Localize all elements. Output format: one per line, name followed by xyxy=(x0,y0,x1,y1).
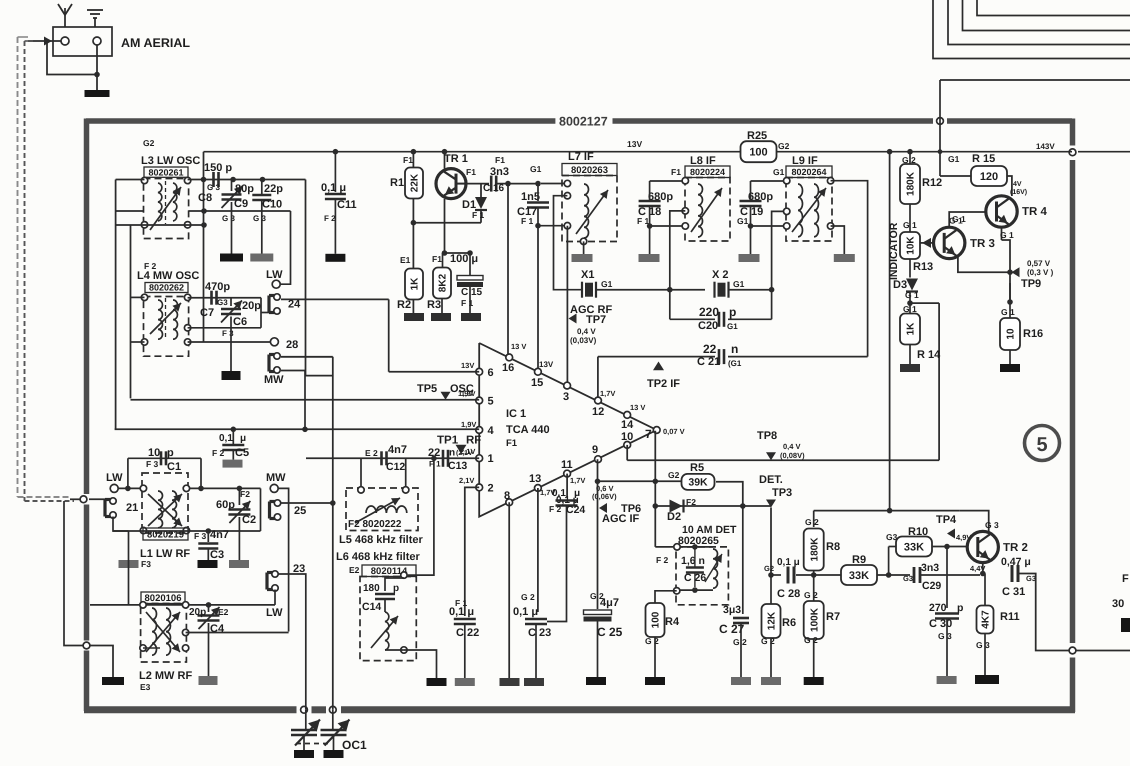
svg-text:1,7V: 1,7V xyxy=(600,389,615,398)
svg-text:8020264: 8020264 xyxy=(791,167,826,177)
svg-text:C 28: C 28 xyxy=(777,588,800,600)
svg-text:0,57 V: 0,57 V xyxy=(1027,259,1051,268)
svg-text:n: n xyxy=(731,342,738,356)
svg-text:TR 3: TR 3 xyxy=(970,238,995,250)
svg-text:R 15: R 15 xyxy=(972,153,995,165)
svg-text:C9: C9 xyxy=(234,198,248,210)
svg-text:5: 5 xyxy=(1036,434,1047,456)
svg-text:E3: E3 xyxy=(140,682,151,692)
svg-text:F1: F1 xyxy=(466,167,476,177)
svg-text:1,7V: 1,7V xyxy=(570,476,585,485)
svg-text:0,47 μ: 0,47 μ xyxy=(1001,556,1031,568)
svg-text:1: 1 xyxy=(488,453,494,465)
svg-text:2,1V: 2,1V xyxy=(459,476,474,485)
svg-text:5: 5 xyxy=(488,396,494,408)
svg-text:C 23: C 23 xyxy=(528,627,551,639)
svg-text:C10: C10 xyxy=(262,199,282,211)
svg-text:1,6 n: 1,6 n xyxy=(681,555,705,567)
svg-text:G3: G3 xyxy=(1026,574,1036,583)
svg-text:4n7: 4n7 xyxy=(388,444,407,456)
svg-text:C5: C5 xyxy=(235,447,249,459)
svg-text:G3: G3 xyxy=(217,298,228,307)
svg-text:3: 3 xyxy=(563,391,569,403)
svg-text:F 2: F 2 xyxy=(212,448,225,458)
svg-text:22p: 22p xyxy=(264,183,283,195)
svg-text:MW: MW xyxy=(264,374,284,386)
svg-text:X1: X1 xyxy=(581,269,594,281)
svg-text:L8 IF: L8 IF xyxy=(690,155,716,167)
svg-text:F2 8020222: F2 8020222 xyxy=(348,519,402,530)
svg-text:C2: C2 xyxy=(242,514,256,526)
svg-text:G 2: G 2 xyxy=(804,635,818,645)
svg-text:G 2: G 2 xyxy=(521,592,535,602)
svg-text:(0,06V): (0,06V) xyxy=(592,492,617,501)
svg-text:F: F xyxy=(1122,573,1129,585)
svg-text:G1: G1 xyxy=(773,167,785,177)
svg-text:G1: G1 xyxy=(948,154,960,164)
svg-text:C29: C29 xyxy=(922,580,941,592)
svg-text:13: 13 xyxy=(529,473,541,485)
svg-text:RF: RF xyxy=(466,435,481,447)
svg-text:G 1: G 1 xyxy=(905,290,919,300)
svg-text:R7: R7 xyxy=(826,611,840,623)
svg-text:F2: F2 xyxy=(686,497,696,507)
svg-text:F 1: F 1 xyxy=(521,216,534,226)
svg-text:E 2: E 2 xyxy=(365,448,378,458)
svg-text:F1: F1 xyxy=(506,438,518,449)
svg-text:60p: 60p xyxy=(216,499,235,511)
svg-text:100K: 100K xyxy=(809,607,820,632)
svg-text:p: p xyxy=(393,583,399,594)
svg-text:10: 10 xyxy=(621,431,633,443)
svg-text:10: 10 xyxy=(148,447,160,459)
svg-text:R 14: R 14 xyxy=(917,349,941,361)
svg-text:20p: 20p xyxy=(242,300,261,312)
svg-text:C24: C24 xyxy=(566,504,585,516)
svg-text:0,1 μ: 0,1 μ xyxy=(321,182,346,194)
svg-text:G 3: G 3 xyxy=(976,640,990,650)
svg-text:7: 7 xyxy=(645,427,652,441)
svg-text:(0,03V): (0,03V) xyxy=(570,336,597,345)
svg-text:0,1 μ: 0,1 μ xyxy=(777,557,800,568)
svg-text:4n7: 4n7 xyxy=(210,529,229,541)
svg-text:0,07 V: 0,07 V xyxy=(663,427,685,436)
svg-text:180K: 180K xyxy=(906,171,917,196)
svg-text:F1: F1 xyxy=(432,254,442,264)
svg-text:20p: 20p xyxy=(189,607,206,618)
svg-text:24: 24 xyxy=(288,299,301,311)
svg-text:4V: 4V xyxy=(1013,181,1022,188)
svg-text:220: 220 xyxy=(699,305,719,319)
svg-text:C 22: C 22 xyxy=(456,627,479,639)
svg-text:TP3: TP3 xyxy=(772,487,792,499)
svg-text:IC 1: IC 1 xyxy=(506,408,526,420)
svg-text:11: 11 xyxy=(561,459,573,471)
svg-text:C 15: C 15 xyxy=(461,287,483,298)
svg-text:R2: R2 xyxy=(397,299,411,311)
svg-text:13V: 13V xyxy=(461,361,474,370)
svg-text:F 1: F 1 xyxy=(461,298,474,308)
svg-text:C 30: C 30 xyxy=(929,618,952,630)
svg-text:F1: F1 xyxy=(671,167,681,177)
svg-text:G 3: G 3 xyxy=(985,520,999,530)
svg-text:R11: R11 xyxy=(1000,611,1020,623)
svg-text:C 16: C 16 xyxy=(483,183,505,194)
svg-text:22K: 22K xyxy=(410,173,421,192)
svg-text:INDICATOR: INDICATOR xyxy=(888,222,900,280)
svg-text:L3 LW OSC: L3 LW OSC xyxy=(141,155,200,167)
svg-text:10: 10 xyxy=(1006,328,1017,340)
svg-text:13 V: 13 V xyxy=(630,403,645,412)
svg-text:(0,3 V ): (0,3 V ) xyxy=(1027,268,1054,277)
svg-text:(0,08V): (0,08V) xyxy=(780,451,805,460)
svg-text:(G1: (G1 xyxy=(728,359,742,368)
svg-text:G 3: G 3 xyxy=(207,183,220,192)
svg-text:3μ3: 3μ3 xyxy=(723,604,741,616)
svg-text:AM AERIAL: AM AERIAL xyxy=(121,36,190,50)
svg-text:28: 28 xyxy=(286,339,298,351)
svg-text:8002127: 8002127 xyxy=(559,115,608,129)
svg-text:3n3: 3n3 xyxy=(921,562,939,574)
svg-text:E2: E2 xyxy=(218,607,229,617)
svg-text:G 2: G 2 xyxy=(645,636,659,646)
svg-text:G 2: G 2 xyxy=(805,517,819,527)
svg-text:L2 MW RF: L2 MW RF xyxy=(139,670,192,682)
svg-text:E2: E2 xyxy=(349,565,360,575)
svg-text:0,1: 0,1 xyxy=(219,433,233,444)
svg-text:E1: E1 xyxy=(400,255,411,265)
svg-text:C8: C8 xyxy=(198,192,212,204)
svg-text:100: 100 xyxy=(651,611,662,628)
svg-text:p: p xyxy=(167,447,174,459)
svg-text:G1: G1 xyxy=(601,279,613,289)
svg-text:13 V: 13 V xyxy=(511,342,526,351)
svg-text:22: 22 xyxy=(703,342,717,356)
svg-text:TP8: TP8 xyxy=(757,430,777,442)
svg-text:180K: 180K xyxy=(809,537,820,562)
svg-text:TP2 IF: TP2 IF xyxy=(647,378,680,390)
svg-text:13V: 13V xyxy=(539,360,554,369)
svg-text:F 3: F 3 xyxy=(222,329,234,338)
svg-text:F3: F3 xyxy=(141,559,151,569)
svg-text:15: 15 xyxy=(531,377,543,389)
svg-text:0,4 V: 0,4 V xyxy=(577,327,596,336)
svg-text:C 21: C 21 xyxy=(697,356,720,368)
svg-text:8020261: 8020261 xyxy=(148,167,183,177)
svg-text:OC1: OC1 xyxy=(342,738,367,752)
svg-text:6: 6 xyxy=(488,367,494,379)
svg-text:MW: MW xyxy=(266,472,286,484)
svg-text:C11: C11 xyxy=(337,199,357,211)
svg-text:R4: R4 xyxy=(665,616,680,628)
svg-text:1K: 1K xyxy=(906,322,917,336)
svg-text:R12: R12 xyxy=(922,177,942,189)
svg-text:LW: LW xyxy=(106,472,123,484)
svg-text:TP1: TP1 xyxy=(437,435,459,447)
svg-text:8020262: 8020262 xyxy=(149,283,184,293)
svg-text:X 2: X 2 xyxy=(712,269,729,281)
svg-text:μ: μ xyxy=(574,488,580,499)
svg-text:G 1: G 1 xyxy=(1001,307,1015,317)
svg-text:(2,1V: (2,1V xyxy=(456,449,473,457)
svg-text:12: 12 xyxy=(592,406,604,418)
svg-text:C3: C3 xyxy=(210,549,224,561)
svg-text:25: 25 xyxy=(294,505,306,517)
svg-text:G 3: G 3 xyxy=(938,631,952,641)
svg-text:F 2: F 2 xyxy=(324,214,336,223)
svg-text:F 2: F 2 xyxy=(656,555,669,565)
svg-text:G2: G2 xyxy=(778,141,790,151)
svg-text:R3: R3 xyxy=(427,299,441,311)
svg-text:4: 4 xyxy=(488,425,495,437)
svg-text:G 3: G 3 xyxy=(222,214,235,223)
svg-text:16: 16 xyxy=(502,362,514,374)
svg-text:G 2: G 2 xyxy=(761,636,775,646)
svg-text:TR 4: TR 4 xyxy=(1022,206,1048,218)
svg-text:G 2: G 2 xyxy=(733,637,747,647)
svg-text:AGC IF: AGC IF xyxy=(602,513,640,525)
svg-text:G2: G2 xyxy=(764,564,774,573)
svg-text:33K: 33K xyxy=(904,542,924,554)
svg-text:F 2: F 2 xyxy=(549,504,562,514)
svg-text:G1: G1 xyxy=(727,322,738,331)
svg-text:R6: R6 xyxy=(782,617,796,629)
svg-text:n: n xyxy=(449,448,455,459)
svg-text:33K: 33K xyxy=(849,570,869,582)
svg-text:L9 IF: L9 IF xyxy=(792,155,818,167)
svg-text:μ: μ xyxy=(240,433,246,444)
svg-text:C1: C1 xyxy=(167,461,181,473)
svg-text:4μ7: 4μ7 xyxy=(600,597,619,609)
svg-text:L7 IF: L7 IF xyxy=(568,151,594,163)
svg-text:F 3: F 3 xyxy=(146,459,159,469)
svg-text:L6 468 kHz filter: L6 468 kHz filter xyxy=(336,551,420,563)
svg-text:TP7: TP7 xyxy=(586,314,606,326)
svg-text:0,1: 0,1 xyxy=(552,488,566,499)
svg-text:1,9V: 1,9V xyxy=(461,420,476,429)
svg-text:39K: 39K xyxy=(688,477,708,489)
svg-text:1,9V: 1,9V xyxy=(461,391,476,398)
svg-text:TR 1: TR 1 xyxy=(444,153,468,165)
svg-text:C 31: C 31 xyxy=(1002,586,1025,598)
svg-text:C7: C7 xyxy=(200,307,214,319)
svg-text:0,1 μ: 0,1 μ xyxy=(449,606,474,618)
svg-text:C12: C12 xyxy=(386,461,405,473)
svg-text:G1: G1 xyxy=(530,164,542,174)
svg-text:TCA 440: TCA 440 xyxy=(506,424,550,436)
svg-text:LW: LW xyxy=(266,269,283,281)
svg-text:8020224: 8020224 xyxy=(690,167,725,177)
svg-text:8020265: 8020265 xyxy=(678,535,719,547)
svg-text:TP9: TP9 xyxy=(1021,278,1041,290)
svg-text:R16: R16 xyxy=(1023,328,1043,340)
svg-text:G3: G3 xyxy=(903,574,913,583)
svg-text:100 μ: 100 μ xyxy=(450,253,478,265)
svg-text:L4 MW OSC: L4 MW OSC xyxy=(137,270,199,282)
svg-text:TP5: TP5 xyxy=(417,383,437,395)
svg-text:3n3: 3n3 xyxy=(490,166,509,178)
svg-text:100: 100 xyxy=(749,147,767,159)
svg-text:(16V): (16V) xyxy=(1010,188,1027,196)
svg-text:F1: F1 xyxy=(403,155,413,165)
svg-text:LW: LW xyxy=(266,607,283,619)
svg-text:C6: C6 xyxy=(233,316,247,328)
svg-text:10K: 10K xyxy=(906,236,917,255)
svg-text:G 1: G 1 xyxy=(1000,230,1014,240)
svg-text:G 3: G 3 xyxy=(253,214,266,223)
svg-text:30: 30 xyxy=(1112,598,1124,610)
svg-text:180: 180 xyxy=(363,583,380,594)
svg-text:D2: D2 xyxy=(667,511,681,523)
svg-text:F2: F2 xyxy=(240,489,250,499)
svg-text:C 25: C 25 xyxy=(597,625,623,639)
svg-text:14: 14 xyxy=(621,419,634,431)
svg-text:13V: 13V xyxy=(627,139,642,149)
svg-text:120: 120 xyxy=(980,171,998,183)
svg-text:TR 2: TR 2 xyxy=(1003,542,1028,554)
svg-text:F 3: F 3 xyxy=(194,531,207,541)
svg-text:R13: R13 xyxy=(913,261,933,273)
svg-text:C13: C13 xyxy=(448,460,467,472)
svg-text:R25: R25 xyxy=(747,130,767,142)
svg-text:G2: G2 xyxy=(668,470,680,480)
svg-text:G1: G1 xyxy=(737,216,749,226)
svg-text:G1: G1 xyxy=(733,279,745,289)
svg-text:9: 9 xyxy=(592,444,598,456)
svg-text:L5 468 kHz filter: L5 468 kHz filter xyxy=(339,534,423,546)
svg-text:R5: R5 xyxy=(690,462,704,474)
svg-text:21: 21 xyxy=(126,502,138,514)
svg-text:8020106: 8020106 xyxy=(145,593,182,604)
svg-text:143V: 143V xyxy=(1036,142,1055,151)
svg-text:C14: C14 xyxy=(362,601,381,613)
svg-text:8K2: 8K2 xyxy=(438,273,449,292)
svg-text:1K: 1K xyxy=(410,277,421,291)
svg-text:C20: C20 xyxy=(698,320,718,332)
svg-text:TP4: TP4 xyxy=(936,514,957,526)
svg-text:0,4 V: 0,4 V xyxy=(783,442,801,451)
svg-text:80p: 80p xyxy=(235,183,254,195)
svg-text:F 1: F 1 xyxy=(472,210,485,220)
svg-text:G 1: G 1 xyxy=(903,304,917,314)
svg-text:DET.: DET. xyxy=(759,474,783,486)
svg-text:0,1 μ: 0,1 μ xyxy=(513,606,538,618)
svg-text:G 1: G 1 xyxy=(949,216,963,226)
svg-text:2: 2 xyxy=(488,482,494,494)
svg-text:8020263: 8020263 xyxy=(571,165,608,176)
svg-text:G2: G2 xyxy=(143,138,155,148)
svg-text:8: 8 xyxy=(504,490,510,502)
svg-text:R8: R8 xyxy=(826,541,840,553)
svg-text:12K: 12K xyxy=(767,611,778,630)
svg-text:F1: F1 xyxy=(495,155,505,165)
svg-text:G 2: G 2 xyxy=(804,590,818,600)
svg-text:R1: R1 xyxy=(390,177,404,189)
svg-text:4K7: 4K7 xyxy=(981,610,992,629)
svg-text:p: p xyxy=(729,305,736,319)
